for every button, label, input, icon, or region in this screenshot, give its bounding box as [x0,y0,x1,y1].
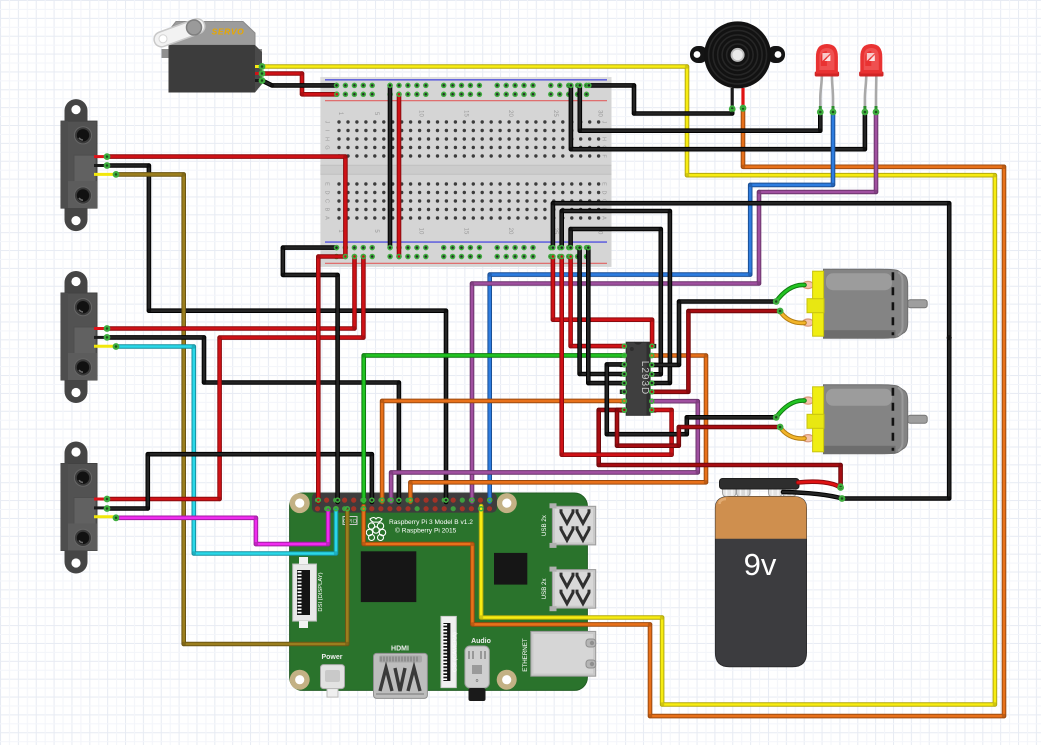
svg-text:A: A [601,216,607,220]
svg-text:J: J [601,121,607,124]
svg-text:J: J [324,121,330,124]
svg-text:DSI (DISPLAY): DSI (DISPLAY) [318,572,324,611]
svg-text:G: G [324,145,330,149]
svg-text:D: D [601,191,607,195]
svg-text:25: 25 [552,110,558,117]
svg-text:10: 10 [418,110,424,117]
svg-text:Raspberry Pi 3 Model B v1.2: Raspberry Pi 3 Model B v1.2 [389,519,473,526]
svg-text:30: 30 [597,110,603,117]
svg-text:USB 2x: USB 2x [541,514,548,536]
svg-text:USB 2x: USB 2x [541,578,548,600]
svg-text:C: C [324,199,330,203]
svg-text:B: B [324,208,330,212]
svg-text:H: H [601,137,607,141]
svg-text:Audio: Audio [471,638,491,645]
svg-text:Power: Power [321,654,342,661]
svg-text:L293D: L293D [639,361,650,395]
svg-text:20: 20 [507,228,513,235]
svg-text:A: A [324,216,330,220]
svg-text:20: 20 [507,110,513,117]
svg-text:o: o [476,678,479,684]
svg-text:E: E [601,182,607,186]
svg-text:SERVO: SERVO [212,27,245,37]
svg-text:ETHERNET: ETHERNET [522,638,529,672]
svg-text:HDMI: HDMI [391,646,409,653]
svg-text:10: 10 [418,228,424,235]
svg-text:H: H [324,137,330,141]
svg-text:D: D [324,191,330,195]
svg-text:E: E [324,182,330,186]
svg-text:15: 15 [462,228,468,235]
svg-text:© Raspberry Pi 2015: © Raspberry Pi 2015 [395,527,457,535]
svg-text:9v: 9v [744,547,777,582]
svg-text:CSI (CAMERA): CSI (CAMERA) [453,632,459,672]
svg-text:15: 15 [462,110,468,117]
